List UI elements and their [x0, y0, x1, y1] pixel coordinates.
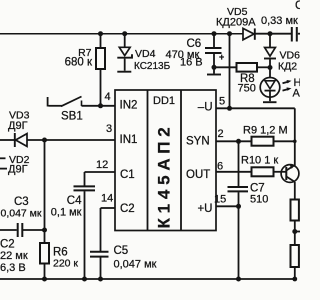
- wire -U pin5: [216, 107, 295, 109]
- svg-text:КД209А: КД209А: [216, 17, 256, 29]
- svg-text:3: 3: [106, 123, 112, 135]
- svg-text:DD1: DD1: [153, 95, 175, 107]
- node C4-rail: [82, 277, 87, 282]
- node rail-R7: [98, 31, 103, 36]
- svg-text:2: 2: [218, 128, 224, 140]
- node VD6-R8: [268, 65, 273, 70]
- LED HL1: [269, 68, 271, 78]
- node R6-rail: [42, 277, 47, 282]
- node +U junction: [236, 204, 241, 209]
- node -U junction: [227, 106, 232, 111]
- wire collector down: [294, 182, 296, 200]
- svg-text:4: 4: [105, 91, 111, 103]
- node VD3 junction: [42, 138, 47, 143]
- svg-text:OUT: OUT: [186, 169, 210, 181]
- svg-text:КД2: КД2: [278, 61, 297, 73]
- wire -U up to rail: [229, 34, 231, 109]
- resistor R8: [214, 66, 237, 68]
- svg-text:750: 750: [238, 83, 256, 95]
- svg-text:VD4: VD4: [135, 48, 156, 60]
- svg-text:Д9Г: Д9Г: [8, 120, 28, 132]
- svg-text:IN1: IN1: [120, 134, 138, 146]
- node R7-SB1: [98, 103, 103, 108]
- capacitor C3: [0, 229, 17, 231]
- svg-text:А: А: [293, 88, 301, 100]
- svg-text:SYN: SYN: [186, 136, 210, 148]
- diode VD6: [269, 34, 271, 48]
- resistor R11: [291, 200, 299, 221]
- svg-text:–U: –U: [198, 102, 213, 114]
- svg-text:5: 5: [219, 96, 225, 108]
- capacitor C4: [85, 171, 116, 173]
- svg-text:15: 15: [214, 194, 226, 206]
- svg-text:SB1: SB1: [61, 111, 83, 123]
- svg-text:КС213Б: КС213Б: [134, 61, 171, 72]
- capacitor C5: [101, 207, 116, 209]
- node R11-R12 stub: [292, 229, 297, 234]
- wire top rail left: [0, 33, 243, 35]
- svg-text:+U: +U: [197, 203, 212, 215]
- capacitor C7: [238, 141, 240, 186]
- svg-text:Д9Г: Д9Г: [8, 164, 28, 176]
- node C7line-rail: [236, 277, 241, 282]
- diode VD3: [0, 139, 15, 141]
- capacitor C6: [213, 34, 215, 48]
- node C6 bottom: [212, 65, 217, 70]
- svg-text:С5: С5: [114, 245, 129, 257]
- svg-text:R10 1 к: R10 1 к: [241, 155, 278, 167]
- svg-text:C2: C2: [120, 203, 135, 215]
- wire VD3 to pin3: [27, 139, 115, 141]
- svg-text:220 к: 220 к: [53, 258, 78, 270]
- node C3 junction: [42, 228, 47, 233]
- svg-text:0,047 мк: 0,047 мк: [0, 208, 41, 220]
- svg-text:12: 12: [96, 159, 108, 171]
- capacitor C8 0,33mk: [291, 27, 293, 42]
- LED arrows: [283, 82, 289, 84]
- wire stub right of C8: [298, 33, 300, 35]
- svg-text:К145АП2: К145АП2: [155, 122, 174, 228]
- node rail-VD4: [122, 31, 127, 36]
- resistor R9: [252, 137, 274, 146]
- node rail-VD6: [268, 31, 273, 36]
- wire SB1 to pin4: [82, 105, 116, 107]
- svg-text:R9 1,2 М: R9 1,2 М: [243, 125, 288, 137]
- wire VD3 node down to C3 node: [44, 140, 46, 230]
- node C5-rail: [98, 277, 103, 282]
- svg-text:IN2: IN2: [120, 99, 138, 111]
- node rail-minusU: [227, 31, 232, 36]
- wire emitter up: [294, 141, 296, 165]
- svg-text:0,1 мк: 0,1 мк: [51, 207, 82, 219]
- svg-text:+: +: [219, 52, 224, 62]
- node rail-C6: [212, 31, 217, 36]
- svg-text:14: 14: [101, 193, 113, 205]
- resistor R6: [44, 230, 46, 243]
- svg-text:С2: С2: [0, 239, 15, 251]
- wire bottom rail: [0, 278, 295, 280]
- svg-text:0,33 мк: 0,33 мк: [261, 15, 298, 27]
- svg-text:16 В: 16 В: [180, 57, 203, 69]
- wire OUT pin6: [216, 171, 252, 173]
- zener VD4: [124, 34, 126, 48]
- resistor R10: [252, 167, 274, 176]
- resistor R12: [291, 245, 299, 267]
- diode VD2 fragment: [0, 157, 6, 159]
- op-amp DD1 box: [115, 90, 216, 231]
- diode VD5: [243, 28, 254, 39]
- node rail-right-end: [292, 277, 297, 282]
- svg-text:510: 510: [250, 194, 268, 206]
- svg-text:6: 6: [217, 161, 223, 173]
- wire +U pin15: [216, 205, 239, 207]
- resistor R7: [100, 34, 102, 48]
- wire top rail right of VD5: [256, 33, 292, 35]
- node SYN-C7: [236, 139, 241, 144]
- wire -U corner down: [294, 108, 296, 141]
- svg-text:С3: С3: [14, 196, 29, 208]
- svg-text:С: С: [295, 0, 300, 12]
- svg-text:С4: С4: [67, 195, 82, 207]
- wire SYN pin2: [216, 140, 252, 142]
- transistor VT1: [281, 165, 299, 183]
- svg-text:C1: C1: [120, 169, 135, 181]
- switch SB1: [47, 97, 49, 107]
- svg-text:6,3 В: 6,3 В: [0, 262, 26, 274]
- svg-text:0,047 мк: 0,047 мк: [114, 259, 157, 271]
- svg-text:680 к: 680 к: [65, 57, 93, 69]
- svg-text:22 мк: 22 мк: [0, 250, 28, 262]
